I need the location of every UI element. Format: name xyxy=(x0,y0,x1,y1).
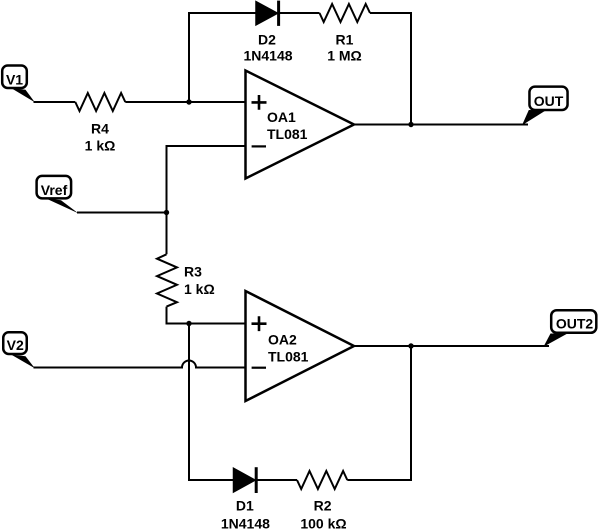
svg-text:1 kΩ: 1 kΩ xyxy=(85,138,116,154)
node Vref junction dot xyxy=(164,210,169,215)
wire V2 to OA2 minus input with hop over vertical wire xyxy=(34,361,246,368)
wire feedback from node A up and right to D2 anode xyxy=(189,13,256,102)
wire OA2 output to OUT2 xyxy=(354,345,549,347)
flag Vref xyxy=(37,176,79,213)
svg-text:OA2: OA2 xyxy=(268,332,297,348)
svg-text:R2: R2 xyxy=(314,498,332,514)
svg-text:R1: R1 xyxy=(336,32,354,48)
svg-text:1N4148: 1N4148 xyxy=(221,516,270,529)
svg-text:1N4148: 1N4148 xyxy=(243,48,292,64)
flag V2 xyxy=(3,332,35,368)
wire R4 to OA1 plus input xyxy=(125,101,245,103)
node B junction dot at OA2 plus input xyxy=(186,321,191,326)
wire R2 to bottom-right corner up to OA2 output xyxy=(347,346,411,480)
svg-text:1 MΩ: 1 MΩ xyxy=(327,48,362,64)
svg-text:OA1: OA1 xyxy=(267,109,296,125)
wire OA1 minus input left and down to R3 xyxy=(167,146,246,254)
wire D2 cathode to R1 xyxy=(279,12,320,14)
svg-text:TL081: TL081 xyxy=(268,349,309,365)
diode D1 xyxy=(234,467,257,493)
wire vertical from node B down to D1 xyxy=(189,324,234,481)
svg-text:V1: V1 xyxy=(6,71,23,87)
svg-text:D1: D1 xyxy=(236,498,254,514)
svg-text:V2: V2 xyxy=(7,337,24,353)
wire R3 bottom to OA2 plus input xyxy=(167,307,246,324)
svg-text:TL081: TL081 xyxy=(267,126,308,142)
svg-text:D2: D2 xyxy=(258,32,276,48)
wire Vref to vertical line xyxy=(77,212,167,214)
svg-text:Vref: Vref xyxy=(41,182,68,198)
svg-text:R3: R3 xyxy=(184,264,202,280)
wire R1 to top-right corner down to OA1 output xyxy=(370,13,411,125)
svg-text:OUT2: OUT2 xyxy=(556,315,594,331)
flag V1 xyxy=(2,66,35,103)
flag OUT2 xyxy=(544,310,597,347)
svg-text:OUT: OUT xyxy=(534,93,564,109)
diode D2 xyxy=(256,1,279,26)
flag OUT xyxy=(522,87,568,126)
node A junction dot at OA1 plus input xyxy=(186,99,191,104)
resistor R4 xyxy=(75,93,125,111)
wire OA1 output to OUT xyxy=(354,124,528,126)
resistor R3 xyxy=(157,254,177,306)
node OUT2 junction dot xyxy=(408,343,413,348)
resistor R2 xyxy=(297,471,347,489)
wire V1 to R4 xyxy=(34,101,76,103)
node OUT junction dot xyxy=(408,122,413,127)
svg-text:R4: R4 xyxy=(91,121,109,137)
svg-text:1 kΩ: 1 kΩ xyxy=(184,281,215,297)
op-amp OA1 xyxy=(246,71,355,179)
wire D1 cathode to R2 xyxy=(256,479,297,481)
op-amp OA2 xyxy=(246,291,355,401)
svg-text:100 kΩ: 100 kΩ xyxy=(300,516,346,529)
resistor R1 xyxy=(320,4,371,22)
